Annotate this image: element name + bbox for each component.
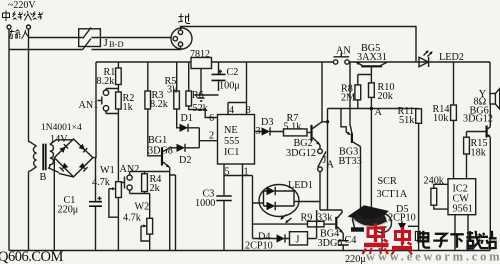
svg-text:20k: 20k bbox=[378, 91, 394, 102]
potentiometer W2 bbox=[123, 202, 153, 251]
svg-text:2M: 2M bbox=[341, 93, 355, 104]
svg-text:51k: 51k bbox=[399, 115, 415, 126]
resistor 240k bbox=[424, 176, 449, 210]
svg-text:R6: R6 bbox=[192, 90, 204, 101]
svg-text:3DG12: 3DG12 bbox=[463, 114, 493, 125]
svg-text:www.eeworm.com: www.eeworm.com bbox=[366, 250, 500, 264]
resistor R15 bbox=[464, 132, 488, 179]
svg-text:3DG8: 3DG8 bbox=[148, 146, 173, 157]
svg-text:3: 3 bbox=[256, 126, 261, 137]
svg-text:8.2k: 8.2k bbox=[97, 76, 116, 87]
svg-text:555: 555 bbox=[224, 136, 239, 147]
svg-text:A: A bbox=[375, 107, 383, 118]
wire live to JB-D bbox=[29, 37, 83, 39]
diode D2 bbox=[170, 144, 200, 166]
resistor R9 bbox=[253, 213, 336, 227]
wire JB-D to plug upper bbox=[92, 37, 172, 39]
label 中线 火线 (neutral / live) bbox=[3, 11, 43, 22]
relay coil J bbox=[290, 210, 317, 246]
svg-text:1N4001×4: 1N4001×4 bbox=[41, 123, 82, 133]
wire R6 to pin6 bbox=[189, 106, 218, 124]
resistor R7 bbox=[284, 113, 308, 136]
wire pin5 to C3 bbox=[224, 164, 230, 195]
svg-text:9561: 9561 bbox=[453, 204, 473, 215]
wire 555 to D4 branch bbox=[224, 176, 260, 239]
LED1 emission arrows bbox=[280, 215, 291, 224]
svg-text:W2: W2 bbox=[135, 202, 150, 213]
diode D5 bbox=[388, 204, 416, 251]
svg-text:100μ: 100μ bbox=[219, 81, 240, 92]
pushbutton AN2 bbox=[120, 164, 140, 194]
svg-text:W1: W1 bbox=[100, 165, 115, 176]
node A line bbox=[328, 107, 419, 118]
svg-text:5.1k: 5.1k bbox=[284, 122, 303, 133]
label 220u near C4 bbox=[345, 254, 366, 264]
relay contact JB-D bbox=[79, 28, 101, 50]
thermal switch JA bbox=[318, 145, 335, 172]
svg-text:1k: 1k bbox=[123, 102, 134, 113]
label 地 (earth) bbox=[178, 14, 190, 24]
watermark www.eeworm.com bbox=[366, 250, 500, 264]
svg-text:2: 2 bbox=[209, 131, 214, 142]
transistor BG4 bbox=[318, 217, 344, 249]
svg-text:2k: 2k bbox=[150, 183, 161, 194]
transistor BG1 bbox=[148, 135, 173, 251]
svg-text:220μ: 220μ bbox=[345, 254, 366, 264]
watermark bug 1 bbox=[363, 224, 389, 255]
resistor R12 on R11 line bbox=[408, 226, 430, 241]
svg-text:3CT1A: 3CT1A bbox=[377, 189, 408, 200]
main +12V bus bbox=[96, 61, 490, 63]
diode D1 bbox=[177, 109, 200, 132]
resistor R6 bbox=[186, 62, 209, 114]
wire D1/D2 to pin2 bbox=[199, 128, 217, 148]
svg-text:~220V: ~220V bbox=[8, 0, 36, 11]
svg-text:3k: 3k bbox=[167, 85, 178, 96]
label B bbox=[40, 172, 47, 183]
wire JA bottom to LED1 / BG4 bbox=[299, 172, 342, 218]
watermark bug 2 bbox=[392, 227, 413, 255]
wire pin1 down bbox=[243, 164, 249, 251]
svg-text:3AX31: 3AX31 bbox=[357, 52, 387, 63]
svg-text:2CP10: 2CP10 bbox=[388, 213, 416, 224]
svg-text:AN2: AN2 bbox=[120, 164, 140, 175]
regulator 7812 bbox=[190, 49, 212, 69]
pushbutton AN1 bbox=[79, 89, 109, 114]
wire pins 4 and 8 bbox=[228, 62, 251, 116]
transformer B primary bbox=[29, 142, 37, 251]
resistor R14 bbox=[433, 62, 457, 179]
IC2 CW9561 bbox=[448, 179, 476, 251]
resistor R8 bbox=[341, 75, 371, 109]
svg-text:LED2: LED2 bbox=[439, 52, 464, 63]
wire R1-R2 node bbox=[106, 85, 118, 93]
wire AN2/R4 bottom tie bbox=[130, 192, 150, 219]
svg-text:BG1: BG1 bbox=[148, 135, 167, 146]
watermark graduation cap bbox=[348, 205, 390, 232]
wire input L down bbox=[8, 29, 10, 251]
wire BG2 collector bbox=[322, 62, 329, 124]
svg-text:1000: 1000 bbox=[195, 198, 215, 209]
wire A to lower node bbox=[327, 109, 329, 211]
svg-text:J: J bbox=[296, 235, 300, 246]
potentiometer W1 bbox=[92, 165, 121, 251]
wire bridge minus down bbox=[53, 158, 55, 251]
wire pin3 bbox=[255, 126, 262, 137]
wire JB-D to plug lower bbox=[92, 46, 181, 49]
unijunction BG3 BT33 bbox=[339, 62, 366, 218]
label ~220V bbox=[8, 0, 36, 11]
svg-text:B: B bbox=[40, 172, 47, 183]
wire R3 to BG1 base bbox=[148, 109, 161, 156]
diode D3 bbox=[261, 117, 284, 136]
resistor R2 bbox=[116, 92, 135, 113]
svg-text:LED1: LED1 bbox=[288, 180, 313, 191]
svg-text:7812: 7812 bbox=[190, 49, 210, 60]
svg-text:IC1: IC1 bbox=[224, 147, 239, 158]
label 输入 (input) bbox=[10, 30, 30, 39]
wire earth lead bbox=[181, 27, 417, 63]
svg-text:8.2k: 8.2k bbox=[150, 99, 169, 110]
svg-text:3DG12: 3DG12 bbox=[286, 148, 316, 159]
svg-text:J: J bbox=[104, 37, 109, 49]
svg-text:AN: AN bbox=[336, 46, 351, 57]
NE555 IC1 bbox=[218, 115, 255, 165]
LED2 bbox=[419, 50, 464, 67]
speaker Y bbox=[463, 62, 500, 125]
svg-text:R9: R9 bbox=[301, 213, 313, 224]
svg-text:D3: D3 bbox=[261, 117, 273, 128]
input terminal N bbox=[27, 25, 31, 29]
capacitor C2 bbox=[212, 62, 241, 92]
wire R2/AN1 junction down to W1 bbox=[106, 109, 118, 182]
svg-text:SCR: SCR bbox=[378, 176, 397, 187]
pushbutton AN bbox=[333, 46, 351, 65]
svg-text:3DG6: 3DG6 bbox=[318, 238, 343, 249]
optocoupler LED1 bbox=[259, 180, 313, 217]
svg-text:Q606.COM: Q606.COM bbox=[0, 249, 63, 264]
svg-text:6: 6 bbox=[209, 113, 214, 124]
wire bridge+ riser bbox=[93, 62, 96, 158]
svg-text:10k: 10k bbox=[433, 113, 449, 124]
svg-text:BT33: BT33 bbox=[339, 156, 362, 167]
svg-text:D2: D2 bbox=[179, 155, 191, 166]
diode D4 bbox=[245, 232, 290, 252]
svg-text:D1: D1 bbox=[181, 113, 193, 124]
resistor R10 bbox=[369, 75, 395, 109]
transformer core bbox=[43, 144, 46, 171]
svg-text:NE: NE bbox=[224, 125, 238, 136]
watermark Q606.COM bbox=[0, 249, 63, 264]
svg-text:4: 4 bbox=[229, 105, 234, 116]
resistor R11 bbox=[398, 106, 422, 251]
resistor R1 bbox=[97, 62, 122, 87]
capacitor C4 bbox=[338, 235, 357, 251]
capacitor C1 bbox=[58, 158, 103, 251]
watermark text 电子下载站 bbox=[418, 231, 496, 249]
label JB-D bbox=[104, 37, 124, 49]
svg-text:C2: C2 bbox=[227, 67, 239, 78]
earth plug socket bbox=[171, 28, 192, 49]
input terminal L bbox=[7, 25, 11, 29]
wire AN2/R4 top tie bbox=[130, 171, 170, 173]
svg-text:18k: 18k bbox=[471, 148, 487, 159]
svg-text:33k: 33k bbox=[317, 213, 333, 224]
transistor BG2 bbox=[286, 122, 322, 159]
svg-text:4.7k: 4.7k bbox=[123, 213, 142, 224]
label 14V bbox=[50, 134, 68, 145]
resistor R3 bbox=[145, 62, 169, 110]
transistor BG5 bbox=[356, 43, 388, 75]
ground symbol bbox=[195, 69, 219, 102]
SCR 3CT1A bbox=[371, 110, 407, 251]
resistor R4 bbox=[142, 172, 162, 195]
svg-text:220μ: 220μ bbox=[58, 205, 79, 216]
svg-text:B-D: B-D bbox=[109, 39, 124, 49]
bottom bus bbox=[9, 250, 490, 252]
resistor R5 bbox=[165, 62, 180, 109]
wire neutral to JB-D bbox=[9, 49, 83, 51]
transistor BG6 bbox=[467, 104, 491, 251]
svg-text:C4: C4 bbox=[345, 235, 357, 246]
label 1N4001x4 bbox=[41, 123, 82, 133]
capacitor C3 bbox=[195, 189, 232, 251]
svg-text:AN1: AN1 bbox=[79, 100, 99, 111]
svg-text:52k: 52k bbox=[193, 103, 209, 114]
wire input N down to transformer bbox=[28, 29, 30, 142]
transformer B secondary bbox=[49, 140, 59, 173]
svg-text:8: 8 bbox=[246, 105, 251, 116]
bridge rectifier 1N4001x4 bbox=[54, 139, 93, 177]
wire emitter aux bbox=[170, 175, 176, 251]
